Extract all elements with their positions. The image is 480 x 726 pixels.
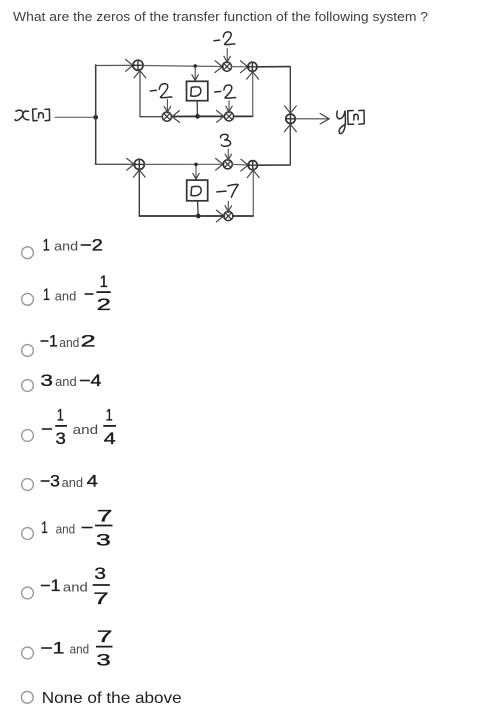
wire input split vertical	[95, 65, 97, 164]
wire J3 down to delay D2	[195, 165, 197, 178]
svg-text:2: 2	[80, 333, 95, 351]
svg-text:3: 3	[96, 531, 111, 549]
wire M1 to adder A2	[232, 66, 247, 68]
coefficient arrow into M4	[227, 149, 229, 158]
option 1: 1 and -2	[22, 247, 34, 259]
svg-text:7: 7	[97, 507, 113, 525]
wire M5 up to A4	[233, 215, 253, 217]
option 7: 1 and -7/3	[22, 528, 34, 540]
svg-text:and: and	[59, 335, 79, 350]
option 6: -3 and 4	[22, 479, 34, 491]
node junction J3	[194, 163, 198, 167]
svg-text:3: 3	[40, 372, 53, 390]
wire to adder A3	[95, 163, 133, 165]
svg-text:and: and	[54, 238, 78, 253]
svg-text:and: and	[63, 580, 88, 595]
svg-text:and: and	[55, 288, 77, 303]
wire A2 to final adder A5	[257, 66, 290, 68]
svg-text:What are the zeros of the tran: What are the zeros of the transfer funct…	[13, 10, 428, 24]
svg-text:−: −	[41, 421, 53, 439]
svg-text:and: and	[70, 642, 90, 657]
wire M2 to A1 feedback	[140, 116, 162, 118]
option 9: -1 and 7/3	[22, 647, 34, 659]
option 3: -1 and 2	[22, 345, 34, 357]
wire D2 output down	[197, 201, 200, 216]
svg-text:1: 1	[41, 519, 48, 537]
svg-text:None of the above: None of the above	[42, 690, 182, 707]
svg-text:−: −	[81, 519, 94, 537]
label -2 above M3	[215, 85, 236, 98]
wire A4 to final adder A5	[257, 164, 290, 166]
adder A1	[133, 60, 143, 70]
wire x[n] input line	[55, 116, 94, 118]
option 8: -1 and 3/7	[22, 587, 34, 599]
svg-text:−2: −2	[80, 236, 103, 254]
wire J2 left to M2	[172, 115, 197, 117]
svg-text:1: 1	[100, 273, 108, 291]
svg-text:and: and	[56, 521, 76, 536]
svg-text:−1: −1	[40, 639, 64, 657]
wire J4 right to M5	[198, 215, 223, 217]
option 2: 1 and -1/2	[22, 293, 34, 305]
adder A3	[134, 159, 144, 169]
label 3 above M4	[221, 134, 231, 146]
delay D1 box	[187, 81, 208, 100]
coefficient arrow into M3	[228, 101, 230, 111]
label -7 above M5	[217, 184, 238, 197]
wire M3 up to A2	[234, 115, 253, 117]
node y[n] output label	[337, 110, 364, 133]
coefficient arrow into M5	[227, 201, 229, 210]
svg-text:−1: −1	[40, 577, 61, 595]
node junction J1	[193, 64, 197, 68]
wire J4 left and up to A3 feedback	[139, 215, 198, 217]
wire J1 down to delay D1	[194, 67, 196, 80]
adder A2	[248, 62, 257, 71]
svg-text:1: 1	[43, 236, 50, 254]
svg-text:−: −	[84, 285, 94, 303]
option 10: None of the above	[21, 691, 33, 703]
wire A1 to multiplier M1	[143, 66, 221, 67]
svg-text:2: 2	[97, 296, 111, 314]
wire to adder A1	[95, 64, 132, 66]
node x[n] input label	[15, 109, 49, 121]
svg-text:1: 1	[57, 407, 64, 425]
svg-text:3: 3	[96, 651, 110, 669]
label D inside D2	[191, 186, 201, 195]
svg-text:1: 1	[43, 286, 50, 304]
svg-text:4: 4	[104, 430, 116, 448]
multiplier M5	[224, 211, 233, 220]
svg-text:7: 7	[93, 590, 108, 608]
svg-text:3: 3	[55, 430, 65, 448]
coefficient arrow into M1	[226, 49, 228, 61]
adder A4	[248, 161, 257, 170]
option 5: -1/3 and 1/4	[22, 430, 34, 442]
svg-text:1: 1	[106, 407, 113, 425]
multiplier M3	[224, 112, 233, 121]
wire J2 right to M3	[198, 115, 224, 117]
multiplier M1	[222, 62, 231, 71]
delay D2 box	[187, 180, 208, 201]
wire A3 to multiplier M4	[145, 163, 222, 165]
multiplier M4	[223, 160, 232, 169]
adder A5 final	[286, 114, 295, 123]
svg-text:−4: −4	[79, 372, 101, 390]
node junction J2	[195, 114, 200, 119]
svg-text:3: 3	[94, 565, 106, 583]
label D inside D1	[191, 87, 201, 96]
svg-text:−3: −3	[40, 473, 60, 491]
multiplier M2 feedback	[162, 112, 171, 121]
node input junction	[93, 115, 98, 120]
label -2 above M2	[150, 84, 172, 98]
option 4: 3 and -4	[22, 380, 34, 392]
coefficient arrow into M2	[166, 100, 168, 111]
wire D1 output down	[196, 101, 198, 116]
node junction J4	[196, 214, 201, 219]
svg-text:and: and	[55, 374, 77, 389]
svg-text:and: and	[62, 475, 83, 490]
svg-text:−1: −1	[40, 333, 58, 351]
wire output arrow to y[n]	[296, 118, 329, 120]
label -2 above M1	[214, 32, 235, 45]
wire M4 to adder A4	[232, 163, 247, 166]
svg-text:4: 4	[87, 473, 98, 491]
svg-text:and: and	[73, 422, 99, 437]
svg-text:7: 7	[97, 628, 113, 646]
